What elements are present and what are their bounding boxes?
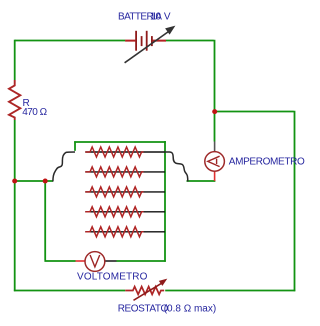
resistor row 2 wire xyxy=(85,171,165,173)
resistor row 3 wire xyxy=(85,191,165,193)
rheostat zigzag with arrow xyxy=(125,279,167,301)
resistor row 4 wire xyxy=(85,211,165,213)
wire bank top horizontal xyxy=(74,141,166,143)
wire ammeter bottom horizontal xyxy=(187,180,216,182)
svg-text:REOSTATO: REOSTATO xyxy=(118,304,169,315)
resistor R vertical zigzag xyxy=(9,80,20,120)
ammeter U1 circle xyxy=(205,142,225,182)
svg-text:(0.8 Ω max): (0.8 Ω max) xyxy=(164,304,217,315)
wire bottom-left from rheostat to corner xyxy=(14,290,125,292)
wire node A down to ammeter xyxy=(214,112,216,142)
resistor row 2 zigzag xyxy=(85,167,143,177)
wire voltmeter to bank right bus xyxy=(117,260,166,262)
wire left squiggle black xyxy=(53,152,75,182)
resistor row 4 zigzag xyxy=(85,207,143,217)
wire left vertical below resistor R through node B to bottom corner xyxy=(14,120,16,291)
wire top-left from left corner to battery xyxy=(15,40,126,42)
wire bottom-right from corner to rheostat xyxy=(165,290,295,292)
wire left vertical above resistor R xyxy=(14,40,16,80)
wire bank left stub vertical xyxy=(74,141,76,151)
wire node B to left squiggle xyxy=(14,180,53,182)
wire node C down and right to voltmeter xyxy=(44,181,75,261)
node C junction dot xyxy=(43,179,48,184)
wire bank right bus vertical xyxy=(164,141,166,262)
resistor row 5 zigzag xyxy=(85,227,143,237)
wire right branch from node A to bottom-right corner xyxy=(215,111,295,292)
node A junction dot xyxy=(212,109,217,114)
svg-text:VOLTOMETRO: VOLTOMETRO xyxy=(77,272,148,283)
voltmeter U2 circle xyxy=(76,252,117,272)
resistor row 1 zigzag xyxy=(85,147,143,157)
svg-text:10 V: 10 V xyxy=(150,12,171,23)
node B junction dot xyxy=(12,179,17,184)
svg-text:470 Ω: 470 Ω xyxy=(22,107,47,118)
resistor row 3 zigzag xyxy=(85,187,143,197)
resistor row 1 wire xyxy=(85,151,165,153)
wire top-right from battery to corner and down to node A xyxy=(166,40,215,112)
svg-text:AMPEROMETRO: AMPEROMETRO xyxy=(229,157,305,168)
battery B1 variable with arrow xyxy=(125,26,176,63)
resistor row 5 wire xyxy=(85,231,165,233)
wire right squiggle black xyxy=(164,152,188,182)
